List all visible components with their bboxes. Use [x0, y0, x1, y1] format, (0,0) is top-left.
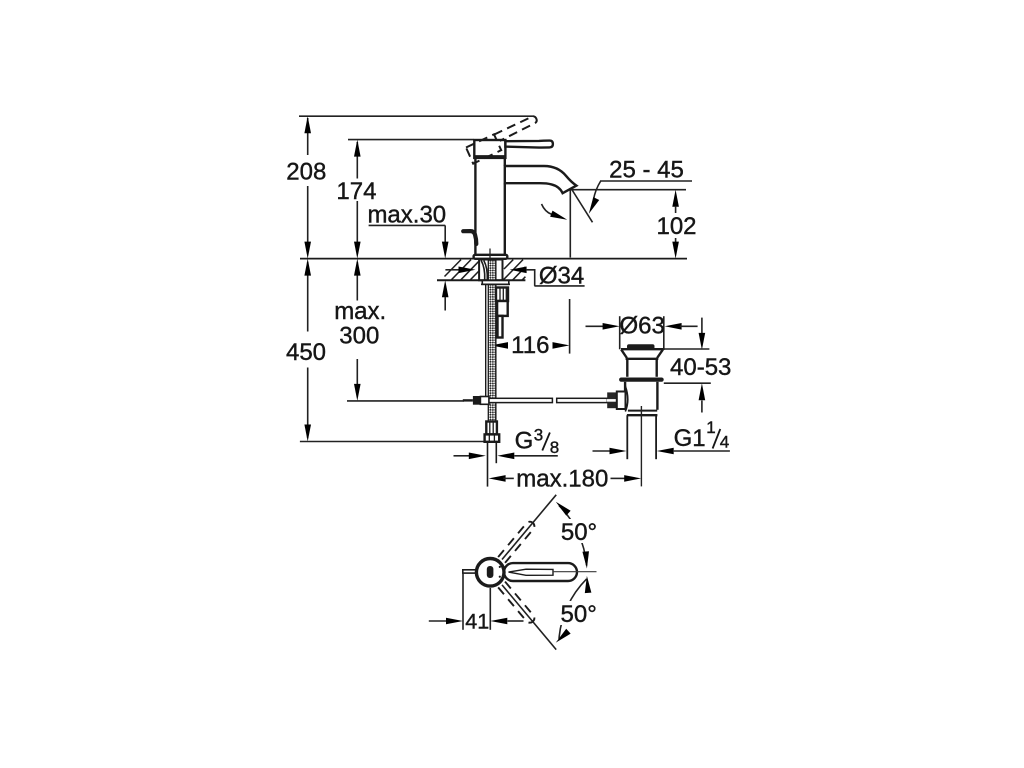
deck hatching left: [445, 260, 479, 281]
tailpipe: [627, 415, 656, 459]
handle-top reference line (174): [348, 139, 474, 141]
svg-text:max.30: max.30: [367, 202, 446, 229]
handle centre line extension: [553, 571, 597, 573]
dimension Ø34 arrows and leader: [445, 267, 534, 286]
svg-text:3: 3: [534, 426, 543, 445]
upper swing arc: [559, 506, 587, 566]
dimension max.300 vertical: [354, 259, 361, 401]
horizontal linkage rod segment 2: [557, 398, 608, 402]
dimension G 3/8: [454, 453, 558, 460]
drain plug cap: [627, 344, 655, 349]
pop-up pull rod knob: [463, 231, 476, 244]
label 50 deg upper: [559, 519, 600, 543]
pop-up linkage rod tip: [463, 399, 473, 401]
drain waste: Ø63 extension lines: [619, 316, 621, 349]
flow diagonal line: [572, 189, 593, 222]
svg-text:41: 41: [465, 610, 489, 634]
label 50 deg lower: [559, 601, 600, 625]
svg-text:G: G: [515, 428, 534, 455]
aerator reference line (102 top): [570, 189, 686, 191]
base escutcheon plate: [474, 255, 508, 259]
svg-text:G1: G1: [674, 425, 706, 452]
locknut shoulder: [628, 410, 657, 412]
dimension 102 vertical: [672, 190, 679, 259]
top view: pull rod: [463, 570, 477, 573]
450 bottom reference line: [300, 441, 484, 443]
mounting washer: [482, 281, 509, 285]
rubber gasket: [619, 378, 664, 382]
spout swivel arc arrow: [542, 204, 552, 214]
dimension 41: [429, 572, 524, 629]
clamp white piece: [480, 397, 489, 405]
svg-text:max.180: max.180: [516, 466, 608, 493]
svg-text:25 - 45: 25 - 45: [609, 157, 684, 184]
dashed lever (raised position): [466, 116, 537, 163]
dimension 174 vertical: [354, 140, 361, 259]
rod clamp block: [473, 396, 481, 405]
svg-text:300: 300: [339, 323, 379, 350]
ball-rod socket arc: [625, 386, 628, 412]
upper 50 deg reference line: [502, 495, 556, 560]
drain centre line: [640, 406, 642, 486]
braided supply hose: [488, 260, 496, 422]
dimension 40-53 lower: [664, 383, 711, 412]
top view: dashed handle up position: [498, 520, 536, 563]
dimension G1 1/4: [593, 448, 730, 455]
drain flange bell: [621, 349, 663, 377]
index dots: [499, 566, 501, 568]
dimension 40-53 upper: [663, 318, 709, 350]
cartridge head: [474, 140, 505, 158]
centre tick: [489, 249, 491, 266]
hose end fitting: [486, 422, 497, 435]
second hose fitting: [496, 288, 508, 338]
svg-text:max.: max.: [334, 298, 386, 325]
svg-text:4: 4: [720, 432, 729, 451]
lower swing arc: [559, 579, 587, 639]
25-45 leader arc with arrowhead: [594, 181, 601, 200]
label G 3/8: [515, 426, 560, 458]
counter underside line: [437, 279, 525, 281]
max.300 bottom reference line: [347, 400, 464, 402]
svg-text:50°: 50°: [561, 601, 597, 628]
svg-text:450: 450: [286, 339, 326, 366]
dimension max.180: [489, 475, 642, 482]
svg-text:116: 116: [511, 332, 549, 359]
faucet spout: [505, 166, 577, 193]
horizontal linkage rod segment 1: [489, 398, 552, 402]
threaded shank: [479, 260, 502, 281]
svg-text:1: 1: [706, 418, 715, 437]
deck hatching right: [503, 260, 525, 281]
svg-text:40-53: 40-53: [670, 354, 731, 381]
spout outlet vertical reference: [569, 190, 571, 258]
knurled rod nut: [607, 392, 617, 408]
top reference line (overall height 208): [299, 115, 534, 117]
lever handle (horizontal): [505, 141, 553, 148]
svg-text:102: 102: [656, 213, 696, 240]
ball housing: [617, 392, 626, 410]
dimension max.30 vertical: [442, 225, 449, 310]
handle slot: [509, 569, 554, 575]
svg-text:Ø63: Ø63: [620, 313, 665, 340]
dimension 208 vertical: [304, 116, 311, 258]
svg-text:208: 208: [286, 159, 326, 186]
cartridge keyhole mark: [487, 566, 494, 578]
dimension Ø63: [586, 323, 698, 330]
lower 50 deg reference line: [502, 585, 556, 650]
svg-text:50°: 50°: [561, 519, 597, 546]
faucet body cylinder: [475, 158, 504, 255]
svg-text:8: 8: [550, 438, 559, 457]
deck / countertop line: [300, 258, 687, 260]
G 3/8 nut: [485, 434, 500, 441]
top view: handle capsule: [504, 563, 577, 581]
dimension 116: [491, 342, 570, 349]
pop-up rod below deck: [485, 284, 487, 397]
top view: faucet body circle: [476, 559, 504, 587]
label G1 1/4: [674, 418, 730, 452]
connection pipe below nut: [487, 442, 489, 487]
top view: dashed handle down position: [498, 582, 536, 625]
116 right reference vertical: [569, 299, 571, 354]
dimension 450 vertical: [304, 259, 311, 442]
drain body below gasket: [625, 382, 657, 410]
